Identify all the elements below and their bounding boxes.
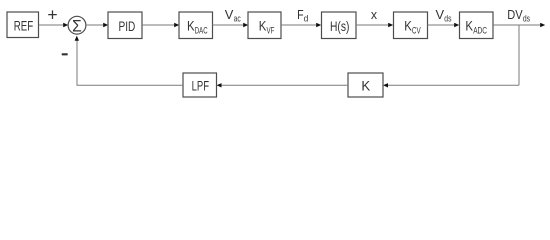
wire KDAC to KVF: [213, 23, 249, 27]
block KDAC: [179, 12, 213, 39]
svg-text:VF: VF: [267, 25, 275, 35]
block PID: [108, 12, 142, 39]
label Vac: [225, 7, 241, 24]
svg-text:+: +: [47, 4, 57, 24]
wire summer to PID: [86, 23, 108, 27]
block KADC: [460, 12, 494, 39]
svg-text:ds: ds: [444, 13, 451, 24]
svg-text:ac: ac: [234, 13, 241, 24]
feedback tap wire down: [518, 25, 520, 85]
feedback wire LPF to summer: [75, 36, 183, 86]
svg-text:d: d: [304, 13, 309, 24]
minus sign: [62, 53, 68, 55]
block KCV: [394, 12, 428, 39]
svg-text:DAC: DAC: [195, 25, 208, 35]
wire REF to summer: [39, 23, 68, 27]
summing junction: [68, 16, 86, 35]
svg-text:V: V: [436, 7, 445, 22]
wire H(s) to KCV: [356, 23, 393, 27]
svg-text:PID: PID: [119, 18, 136, 34]
block KVF: [248, 12, 281, 39]
block LPF: [183, 73, 217, 97]
svg-text:ds: ds: [523, 13, 530, 24]
svg-text:H(s): H(s): [330, 18, 349, 34]
output wire: [493, 23, 545, 27]
label Fd: [297, 7, 308, 24]
wire KCV to KADC: [428, 23, 460, 27]
svg-text:x: x: [371, 7, 378, 22]
label DVds: [507, 7, 530, 24]
block REF: [7, 12, 39, 38]
svg-text:LPF: LPF: [192, 77, 209, 93]
svg-text:F: F: [297, 7, 304, 22]
svg-text:K: K: [361, 77, 370, 93]
svg-text:V: V: [225, 7, 234, 22]
feedback wire to K: [383, 83, 519, 87]
svg-text:CV: CV: [412, 25, 421, 35]
wire KVF to H(s): [281, 23, 321, 27]
svg-text:REF: REF: [14, 18, 33, 34]
label Vds: [436, 7, 452, 24]
block K: [348, 73, 383, 97]
svg-text:DV: DV: [507, 7, 523, 22]
feedback wire K to LPF: [217, 83, 349, 87]
wire PID to KDAC: [142, 23, 179, 27]
svg-text:ADC: ADC: [473, 25, 487, 35]
block H(s): [322, 12, 357, 39]
svg-text:Σ: Σ: [72, 17, 82, 36]
